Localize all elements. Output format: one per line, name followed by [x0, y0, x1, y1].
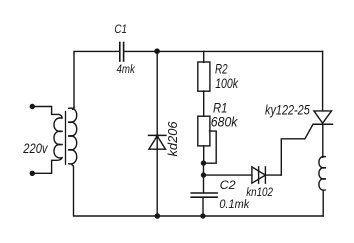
dinistor kn102 [252, 167, 266, 183]
node B dot [201, 172, 206, 177]
svg-text:R2: R2 [215, 61, 228, 76]
wire C2 bottom [202, 197, 204, 216]
node junction dot top [154, 48, 160, 54]
wire ka206 branch vertical [156, 51, 158, 216]
capacitor C1 [120, 43, 124, 62]
wire coil to bottom corner [322, 191, 324, 216]
wire top left (corner to C1) [74, 51, 119, 108]
transformer T1 primary winding [32, 107, 62, 174]
resistor R2 [198, 62, 210, 91]
terminal dot lower [30, 171, 35, 176]
wire node B to dinistor [204, 174, 252, 176]
wire thyristor anode [322, 51, 324, 111]
diode kd206 [149, 135, 166, 149]
inductor L1 [319, 157, 325, 191]
wire R2-R1 [203, 91, 205, 116]
svg-text:C1: C1 [114, 22, 127, 36]
svg-text:0.1mk: 0.1mk [219, 199, 250, 211]
svg-text:680k: 680k [211, 114, 238, 130]
thyristor ky122-25 [313, 111, 332, 124]
wire node A to node B [203, 163, 205, 193]
svg-text:220v: 220v [22, 141, 48, 156]
wire R2 top stub [203, 51, 205, 62]
svg-text:4mk: 4mk [117, 62, 136, 76]
svg-text:100k: 100k [215, 76, 239, 91]
svg-text:ky122-25: ky122-25 [265, 102, 310, 118]
terminal dot upper [30, 104, 35, 109]
wire R1 right-side stub [206, 131, 217, 163]
wire top right (C1 to thyristor anode corner) [124, 50, 322, 52]
wire gate riser and horizontal [281, 124, 313, 175]
wire thyristor cathode to coil [322, 124, 324, 157]
svg-text:kn102: kn102 [246, 185, 273, 199]
resistor R1 [198, 116, 210, 146]
transformer core [65, 112, 67, 165]
svg-text:kd206: kd206 [166, 121, 180, 156]
capacitor C2 [191, 193, 217, 197]
transformer T1 secondary winding [69, 107, 77, 216]
wire R1 bottom to node A [203, 146, 205, 163]
diode kd206 apex junction [156, 134, 159, 137]
wire bottom [74, 215, 323, 217]
svg-text:C2: C2 [220, 178, 236, 192]
junction dot bottom (C2) [200, 213, 205, 218]
node A dot [201, 160, 206, 165]
junction dot bottom left (ka206) [155, 213, 161, 219]
wire dinistor to gate riser [265, 174, 281, 176]
